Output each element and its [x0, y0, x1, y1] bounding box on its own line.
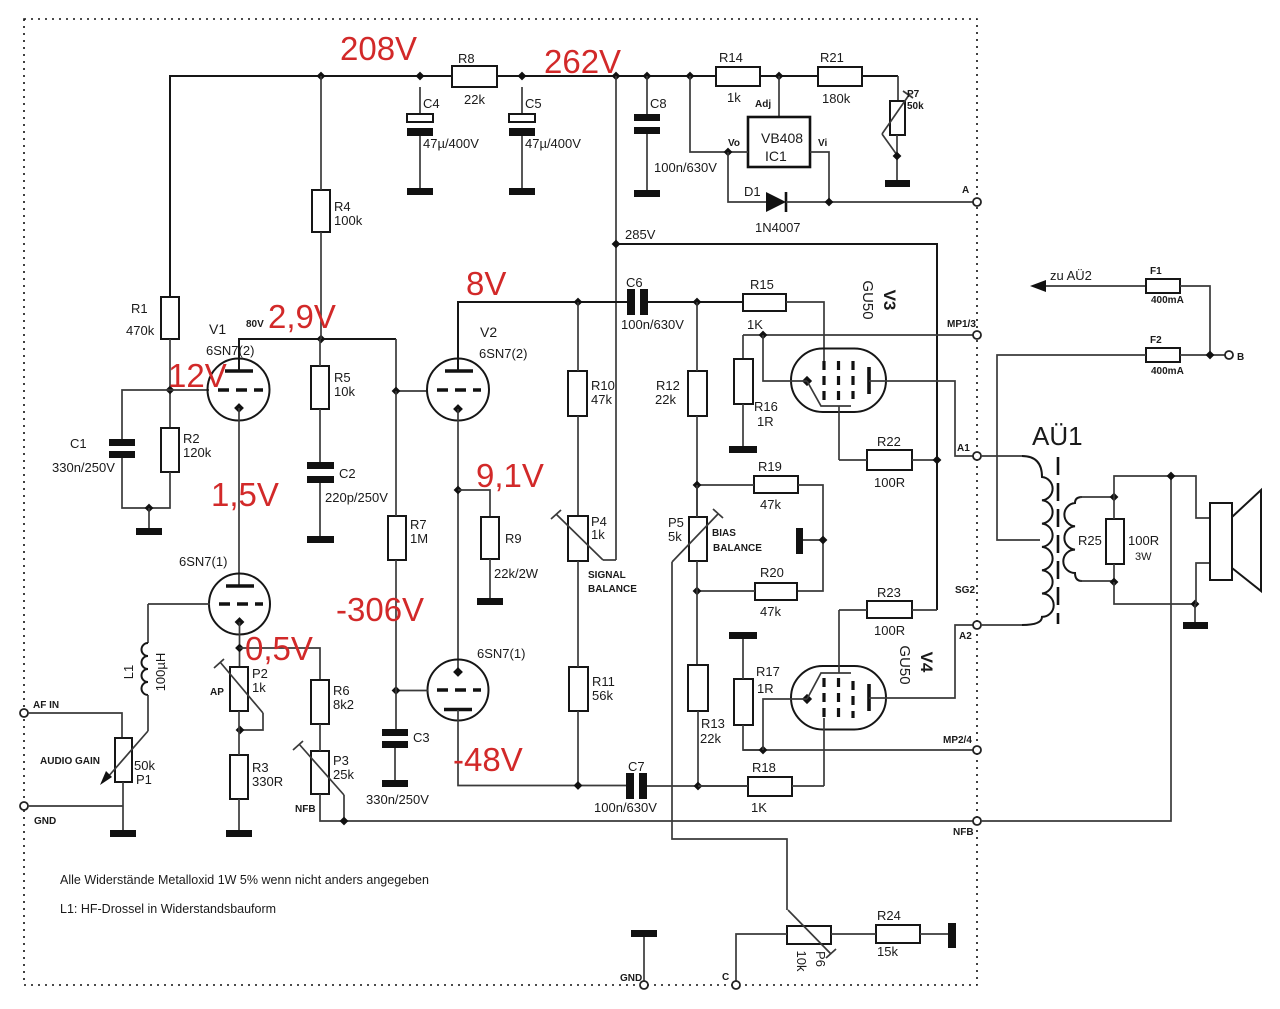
potentiometer P6 [787, 926, 831, 944]
wire V3 anode to A1 [869, 381, 973, 456]
svg-text:6SN7(2): 6SN7(2) [479, 346, 527, 361]
svg-text:R7: R7 [410, 517, 427, 532]
node 285V junction [612, 240, 621, 249]
svg-text:470k: 470k [126, 323, 155, 338]
transformer AÜ1 secondary [1063, 497, 1082, 581]
ground under C2 [307, 536, 334, 543]
wire F1 to B [1180, 286, 1210, 355]
terminal A2 [973, 621, 981, 629]
capacitor C3 [395, 560, 397, 729]
IC U1 VB408 [778, 76, 780, 117]
capacitor C8 [646, 76, 648, 114]
svg-text:A1: A1 [957, 443, 970, 454]
resistor R8 [452, 66, 497, 87]
svg-text:220p/250V: 220p/250V [325, 490, 388, 505]
wire 12V to C1 [122, 390, 170, 439]
resistor R22 [867, 450, 912, 470]
wire zu AÜ2 arrow [1044, 285, 1146, 287]
wire V1b cathode down [239, 622, 241, 667]
svg-text:V3: V3 [880, 290, 899, 311]
svg-text:R25: R25 [1078, 533, 1102, 548]
svg-text:47µ/400V: 47µ/400V [423, 136, 479, 151]
node R12 tap [693, 298, 702, 307]
svg-text:400mA: 400mA [1151, 295, 1184, 306]
svg-text:5k: 5k [668, 529, 682, 544]
svg-text:1M: 1M [410, 531, 428, 546]
wire Vo pin [690, 76, 748, 152]
svg-text:AUDIO GAIN: AUDIO GAIN [40, 756, 100, 767]
ground under P7 [885, 180, 910, 187]
resistor R21 [818, 67, 862, 86]
wire to R9 [458, 490, 490, 517]
svg-text:C4: C4 [423, 96, 440, 111]
ground under C1/R2 [148, 508, 150, 528]
svg-text:NFB: NFB [953, 827, 974, 838]
capacitor C5 [521, 87, 523, 114]
svg-text:50k: 50k [134, 758, 155, 773]
svg-text:100n/630V: 100n/630V [654, 160, 717, 175]
svg-text:10k: 10k [334, 384, 355, 399]
svg-text:25k: 25k [333, 767, 354, 782]
svg-text:P2: P2 [252, 666, 268, 681]
transformer AÜ1 primary [1022, 456, 1054, 625]
svg-text:9,1V: 9,1V [476, 457, 544, 494]
svg-text:L1: L1 [121, 665, 136, 679]
svg-text:AF IN: AF IN [33, 700, 59, 711]
svg-text:47µ/400V: 47µ/400V [525, 136, 581, 151]
resistor R1 [161, 297, 179, 339]
wire P5 to R13 [696, 561, 698, 591]
ground under C4 [407, 188, 433, 195]
svg-text:R22: R22 [877, 434, 901, 449]
svg-text:100n/630V: 100n/630V [621, 317, 684, 332]
tube V2 6SN7(2) upper [427, 359, 489, 421]
svg-text:Alle Widerstände Metalloxid 1W: Alle Widerstände Metalloxid 1W 5% wenn n… [60, 873, 429, 887]
wire 2.9V to V2 grid [396, 339, 427, 391]
svg-text:GU50: GU50 [859, 280, 876, 319]
svg-text:2,9V: 2,9V [268, 298, 336, 335]
svg-text:R17: R17 [756, 664, 780, 679]
resistor R2 [161, 428, 179, 472]
svg-text:22k: 22k [655, 392, 676, 407]
svg-text:BALANCE: BALANCE [713, 543, 762, 554]
resistor R9 [481, 517, 499, 559]
svg-text:SIGNAL: SIGNAL [588, 570, 626, 581]
svg-text:22k/2W: 22k/2W [494, 566, 539, 581]
node 9.1V [454, 486, 463, 495]
wire R25 bottom to speaker ground [1114, 582, 1195, 604]
ground bar between R19/R20 [796, 528, 803, 554]
svg-text:AP: AP [210, 687, 224, 698]
wire AF IN to P1 [28, 713, 122, 738]
resistor R18 [748, 777, 792, 796]
svg-text:R8: R8 [458, 51, 475, 66]
svg-text:R4: R4 [334, 199, 351, 214]
svg-text:R6: R6 [333, 683, 350, 698]
svg-text:R11: R11 [592, 674, 615, 689]
wire R1 to 12V node [169, 339, 171, 428]
svg-text:-306V: -306V [336, 591, 424, 628]
svg-text:400mA: 400mA [1151, 366, 1184, 377]
speaker [1210, 503, 1232, 580]
svg-text:56k: 56k [592, 688, 613, 703]
tube V1 6SN7(1) lower [209, 574, 270, 635]
node 0.5V [235, 644, 244, 653]
wire A1 to primary top [981, 455, 1023, 457]
fuse F2 [1146, 348, 1180, 362]
wire V1a anode to 2.9V rail [239, 339, 396, 371]
svg-text:C: C [722, 972, 729, 983]
svg-text:180k: 180k [822, 91, 851, 106]
node R19 left [693, 481, 702, 490]
svg-text:SG2: SG2 [955, 585, 975, 596]
node R10 tap [574, 298, 583, 307]
svg-text:1R: 1R [757, 414, 774, 429]
svg-text:-48V: -48V [453, 741, 523, 778]
wire 262V vertical long [615, 76, 617, 560]
svg-text:R19: R19 [758, 459, 782, 474]
svg-text:R20: R20 [760, 565, 784, 580]
capacitor C4 [419, 87, 421, 114]
svg-text:GND: GND [34, 816, 56, 827]
svg-text:R13: R13 [701, 716, 725, 731]
svg-text:120k: 120k [183, 445, 212, 460]
transformer core [1057, 457, 1060, 624]
wire V4 cathode to MP2/4 [763, 699, 807, 750]
svg-text:80V: 80V [246, 319, 264, 330]
wire F2 left to transformer centre tap [997, 355, 1146, 540]
svg-text:12V: 12V [168, 357, 227, 394]
potentiometer P7 [897, 76, 899, 101]
resistor R14 [716, 67, 760, 86]
svg-text:50k: 50k [907, 101, 924, 112]
svg-text:R21: R21 [820, 50, 844, 65]
resistor R4 [312, 190, 330, 232]
svg-text:R10: R10 [591, 378, 615, 393]
resistor R6 [311, 680, 329, 724]
node C8 junction [643, 72, 652, 81]
wire Vi pin [810, 152, 829, 202]
svg-text:P7: P7 [907, 89, 920, 100]
svg-text:R5: R5 [334, 370, 351, 385]
svg-text:R15: R15 [750, 277, 774, 292]
wire 0.5V to R6 [240, 648, 321, 680]
wire NFB right segment [981, 476, 1171, 821]
svg-text:1K: 1K [751, 800, 767, 815]
svg-text:F2: F2 [1150, 335, 1162, 346]
wire NFB line [320, 794, 973, 821]
node 12V [166, 386, 175, 395]
svg-text:C6: C6 [626, 275, 643, 290]
svg-text:P6: P6 [813, 951, 828, 967]
svg-text:6SN7(1): 6SN7(1) [477, 646, 525, 661]
ground under speaker [1194, 604, 1196, 622]
svg-text:C7: C7 [628, 759, 645, 774]
svg-text:0,5V: 0,5V [245, 630, 313, 667]
svg-text:R14: R14 [719, 50, 743, 65]
svg-text:8k2: 8k2 [333, 697, 354, 712]
node Adj junction [775, 72, 784, 81]
wire V2b grid [396, 690, 428, 692]
node C5 junction [518, 72, 527, 81]
node 262V junction [612, 72, 621, 81]
svg-text:R2: R2 [183, 431, 200, 446]
terminal B [1225, 351, 1233, 359]
wire grid V1a [170, 389, 209, 391]
svg-text:Vo: Vo [728, 138, 740, 149]
svg-text:100n/630V: 100n/630V [594, 800, 657, 815]
svg-text:P5: P5 [668, 515, 684, 530]
border frame dotted [24, 19, 977, 985]
svg-text:F1: F1 [1150, 266, 1162, 277]
ground under R16 [729, 446, 757, 453]
resistor R5 [311, 366, 329, 409]
potentiometer P3 [311, 751, 329, 794]
svg-text:330n/250V: 330n/250V [52, 460, 115, 475]
svg-text:IC1: IC1 [765, 148, 787, 164]
wire R4 leads [320, 76, 322, 190]
ground terminal bottom [631, 930, 657, 937]
svg-text:22k: 22k [700, 731, 721, 746]
svg-text:AÜ1: AÜ1 [1032, 421, 1083, 451]
wire F2 right to B [1180, 354, 1225, 356]
resistor R19 [754, 476, 798, 493]
svg-text:R16: R16 [754, 399, 778, 414]
svg-text:Adj: Adj [755, 99, 771, 110]
potentiometer P1 AUDIO GAIN [115, 738, 132, 782]
wire GND to P1 bottom [28, 805, 123, 807]
wire V4 grid from R18 [823, 718, 825, 786]
potentiometer P2 [230, 667, 248, 711]
wire secondary bottom [1080, 580, 1114, 582]
svg-text:VB408: VB408 [761, 130, 803, 146]
wire R15 to V3 grid [786, 302, 824, 364]
svg-text:R1: R1 [131, 301, 148, 316]
svg-text:1R: 1R [757, 681, 774, 696]
svg-text:L1: HF-Drossel in Widerstandsb: L1: HF-Drossel in Widerstandsbauform [60, 902, 276, 916]
wire V1b grid [148, 603, 210, 605]
node R20 left [693, 587, 702, 596]
svg-text:1,5V: 1,5V [211, 476, 279, 513]
svg-text:8V: 8V [466, 265, 506, 302]
tube V3 GU50 [791, 349, 886, 413]
resistor R3 [230, 755, 248, 799]
svg-text:22k: 22k [464, 92, 485, 107]
wire V1a cathode to V1b anode [238, 408, 240, 586]
svg-text:285V: 285V [625, 227, 656, 242]
potentiometer P5 BIAS BALANCE [689, 517, 707, 561]
ground under R3 [226, 830, 252, 837]
terminal NFB [973, 817, 981, 825]
diode D1 1N4007 [728, 152, 766, 202]
tube V4 GU50 [791, 666, 886, 730]
resistor R7 [388, 516, 406, 560]
svg-text:208V: 208V [340, 30, 417, 67]
svg-text:GU50: GU50 [896, 645, 913, 684]
resistor R23 [867, 601, 912, 618]
capacitor C7 [626, 773, 634, 799]
svg-text:10k: 10k [794, 951, 809, 972]
svg-text:V4: V4 [917, 652, 936, 673]
svg-text:R9: R9 [505, 531, 522, 546]
svg-text:47k: 47k [760, 604, 781, 619]
svg-text:6SN7(1): 6SN7(1) [179, 554, 227, 569]
svg-text:D1: D1 [744, 184, 761, 199]
resistor R25 [1106, 519, 1124, 564]
resistor R17 [734, 679, 753, 725]
terminal C [732, 981, 740, 989]
svg-text:100R: 100R [1128, 533, 1159, 548]
svg-text:100k: 100k [334, 213, 363, 228]
svg-text:1k: 1k [591, 527, 605, 542]
capacitor C6 [627, 289, 635, 315]
wire V2a cathode down [457, 409, 459, 669]
wire secondary top [1080, 496, 1114, 498]
svg-text:C1: C1 [70, 436, 87, 451]
ground under R9 [477, 598, 503, 605]
wire V2b anode to -48V line [458, 710, 626, 786]
fuse F1 [1146, 279, 1180, 293]
potentiometer P4 SIGNAL BALANCE [568, 516, 588, 561]
svg-text:P3: P3 [333, 753, 349, 768]
svg-text:MP2/4: MP2/4 [943, 735, 972, 746]
resistor R11 [569, 667, 588, 711]
wire secondary top to speaker [1114, 476, 1210, 518]
svg-text:1k: 1k [252, 680, 266, 695]
svg-text:262V: 262V [544, 43, 621, 80]
resistor R10 [568, 371, 587, 416]
svg-text:P1: P1 [136, 772, 152, 787]
wire V2a anode to 8V rail [458, 302, 627, 371]
svg-text:A2: A2 [959, 631, 972, 642]
wire MP1/3 line [743, 334, 973, 336]
ground under C8 [634, 190, 660, 197]
svg-text:R12: R12 [656, 378, 680, 393]
svg-text:BALANCE: BALANCE [588, 584, 637, 595]
svg-text:100R: 100R [874, 475, 905, 490]
tube V1 6SN7(2) upper [208, 359, 270, 421]
resistor R16 [734, 359, 753, 404]
wire speaker bottom stub [1196, 563, 1210, 604]
capacitor C1 [109, 439, 135, 446]
wire V4 anode to A2 [869, 625, 973, 698]
svg-text:R3: R3 [252, 760, 269, 775]
resistor R15 [743, 294, 786, 311]
wire 208V rail top [170, 76, 898, 297]
svg-text:330R: 330R [252, 774, 283, 789]
svg-text:BIAS: BIAS [712, 528, 736, 539]
wire P6 left to C terminal [736, 934, 787, 981]
ground under P1 [110, 830, 136, 837]
ground bar after R24 [948, 923, 956, 948]
svg-text:15k: 15k [877, 944, 898, 959]
svg-text:100R: 100R [874, 623, 905, 638]
wire V3 cathode to MP1/3 [763, 335, 807, 381]
node 2.9V R5 tap [317, 335, 326, 344]
terminal A [973, 198, 981, 206]
svg-text:R24: R24 [877, 908, 901, 923]
svg-text:47k: 47k [591, 392, 612, 407]
svg-text:C8: C8 [650, 96, 667, 111]
resistor R12 [688, 371, 707, 416]
svg-text:6SN7(2): 6SN7(2) [206, 343, 254, 358]
svg-text:C2: C2 [339, 466, 356, 481]
svg-text:330n/250V: 330n/250V [366, 792, 429, 807]
svg-text:47k: 47k [760, 497, 781, 512]
wire 285V line [616, 244, 937, 610]
svg-text:B: B [1237, 352, 1244, 363]
terminal MP1/3 [973, 331, 981, 339]
resistor R13 [688, 665, 708, 711]
svg-text:C3: C3 [413, 730, 430, 745]
resistor R20 [755, 583, 797, 600]
svg-text:Vi: Vi [818, 138, 827, 149]
terminal AF IN [20, 709, 28, 717]
wire P5 wiper long [672, 562, 787, 910]
svg-text:1k: 1k [727, 90, 741, 105]
svg-text:MP1/3: MP1/3 [947, 319, 976, 330]
svg-text:zu AÜ2: zu AÜ2 [1050, 268, 1092, 283]
svg-text:NFB: NFB [295, 804, 316, 815]
node C4 junction [416, 72, 425, 81]
svg-text:V1: V1 [209, 321, 226, 337]
svg-text:R18: R18 [752, 760, 776, 775]
terminal GND input [20, 802, 28, 810]
wire A2 to primary bottom [981, 624, 1023, 626]
svg-text:1N4007: 1N4007 [755, 220, 801, 235]
terminal A1 [973, 452, 981, 460]
ground above R17 [729, 632, 757, 639]
tube V2 6SN7(1) lower flipped [428, 660, 489, 721]
svg-text:3W: 3W [1135, 551, 1152, 563]
wire MP2/4 line [743, 749, 973, 751]
svg-text:C5: C5 [525, 96, 542, 111]
capacitor C2 [307, 462, 334, 469]
svg-text:GND: GND [620, 973, 642, 984]
svg-text:A: A [962, 185, 969, 196]
svg-text:R23: R23 [877, 585, 901, 600]
node 208V junction R4 [317, 72, 326, 81]
node C1-R2 junction [145, 504, 154, 513]
node Vo branch junction [686, 72, 695, 81]
svg-text:V2: V2 [480, 324, 497, 340]
svg-text:100µH: 100µH [153, 653, 168, 692]
ground under C5 [509, 188, 535, 195]
inductor L1 [147, 604, 149, 643]
resistor R24 [876, 925, 920, 943]
svg-text:1K: 1K [747, 317, 763, 332]
terminal MP2/4 [973, 746, 981, 754]
